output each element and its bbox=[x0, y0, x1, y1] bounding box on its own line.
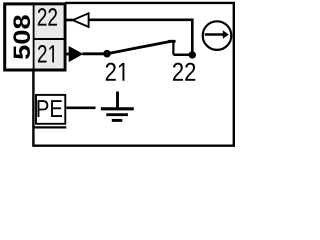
label 21 bbox=[106, 63, 125, 81]
input arrow (filled triangle) on 21 line bbox=[66, 46, 84, 62]
label 22 bbox=[173, 63, 195, 81]
label PE bbox=[38, 100, 63, 117]
output arrow (open triangle) on 22 line bbox=[66, 13, 89, 27]
fixed contact post bbox=[172, 41, 174, 54]
wire main loop (top, right, bottom, left riser) bbox=[33, 3, 233, 146]
fixed contact seat bbox=[168, 40, 175, 43]
terminal cell 21 bbox=[38, 45, 54, 62]
terminal cell 22 bbox=[38, 8, 57, 25]
switch blade 21-22 bbox=[107, 41, 172, 54]
wire PE to ground bbox=[67, 107, 96, 110]
node 22 (junction dot) bbox=[189, 51, 196, 58]
label 508 (rotated) bbox=[13, 15, 30, 59]
terminal box PE bbox=[36, 95, 65, 124]
wire 21 bbox=[83, 52, 108, 55]
wire post to node 22 bbox=[173, 53, 192, 56]
terminal block 508 body bbox=[5, 4, 65, 70]
ground (earth symbol) bbox=[101, 92, 134, 121]
node 21 (junction dot) bbox=[103, 50, 111, 58]
wire PE stub (below PE box, riser to box right edge) bbox=[33, 126, 66, 128]
wire 22 branch (top run, corner, down to node) bbox=[88, 20, 192, 55]
current direction symbol (circle with arrow) bbox=[203, 21, 232, 50]
